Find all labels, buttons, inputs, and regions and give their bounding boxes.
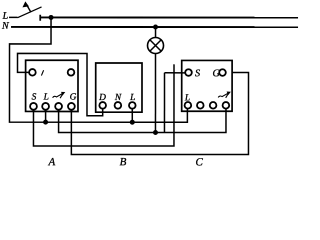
box A terminal S circle [30, 103, 37, 110]
svg-text:L: L [184, 93, 190, 103]
box C bottom terminal 2 circle [197, 102, 204, 109]
wire vertical from stub down to dim line [163, 73, 165, 133]
switch SW1 fixed contact tick [39, 15, 41, 21]
box A top right terminal circle [68, 69, 75, 76]
svg-text:S: S [195, 68, 200, 79]
box A terminal dim circle [55, 103, 62, 110]
switch SW1 blade [18, 7, 42, 18]
wire N line [11, 26, 298, 28]
box C dim symbol [218, 92, 231, 98]
wire C.S stub horizontal [165, 72, 186, 74]
wire W1 switched L bus [9, 17, 187, 122]
box B terminal L circle [129, 102, 136, 109]
box C terminal G circle [219, 69, 226, 76]
box A dim symbol [53, 92, 66, 98]
wire S line A to C [33, 64, 174, 146]
svg-text:D: D [98, 93, 106, 103]
box C terminal dim circle [223, 102, 230, 109]
wire G line A to C [71, 72, 248, 154]
lamp E1 [148, 37, 164, 53]
box B outline [96, 63, 142, 112]
box A terminal I circle [29, 69, 36, 76]
svg-text:N: N [1, 21, 10, 32]
svg-text:A: A [47, 156, 55, 168]
box A terminal G circle [68, 103, 75, 110]
box A outline [26, 60, 78, 111]
svg-text:S: S [32, 92, 37, 102]
junction dot B.L on bus [130, 120, 135, 125]
box B terminal D circle [99, 102, 106, 109]
wire W2 A.I to B.D [17, 53, 102, 115]
svg-text:B: B [120, 156, 127, 168]
wire dim line A to C [59, 108, 226, 132]
svg-text:C: C [196, 156, 204, 168]
wire L line left stub [9, 16, 17, 18]
wire L line right [40, 16, 298, 18]
junction dot on N line at lamp [153, 25, 158, 30]
wire lamp top lead [155, 27, 157, 38]
wire A.L stub [45, 109, 47, 122]
wire B.L stub [131, 108, 133, 122]
svg-text:L: L [43, 92, 49, 102]
svg-text:N: N [114, 93, 122, 103]
box A label I [41, 70, 43, 75]
box C terminal L circle [185, 102, 192, 109]
box A terminal L circle [42, 103, 49, 110]
box B terminal N circle [115, 102, 122, 109]
box C terminal S circle [185, 69, 192, 76]
junction dot on L line [49, 15, 54, 20]
svg-text:G: G [70, 92, 77, 102]
svg-text:L: L [129, 93, 135, 103]
wire lamp bottom lead down to dim line [154, 54, 156, 133]
box C bottom terminal 3 circle [210, 102, 217, 109]
box C outline [182, 60, 232, 111]
switch SW1 actuation arrow [27, 5, 31, 12]
junction dot lamp to dim line [153, 130, 158, 135]
junction dot A.L on bus [43, 120, 48, 125]
